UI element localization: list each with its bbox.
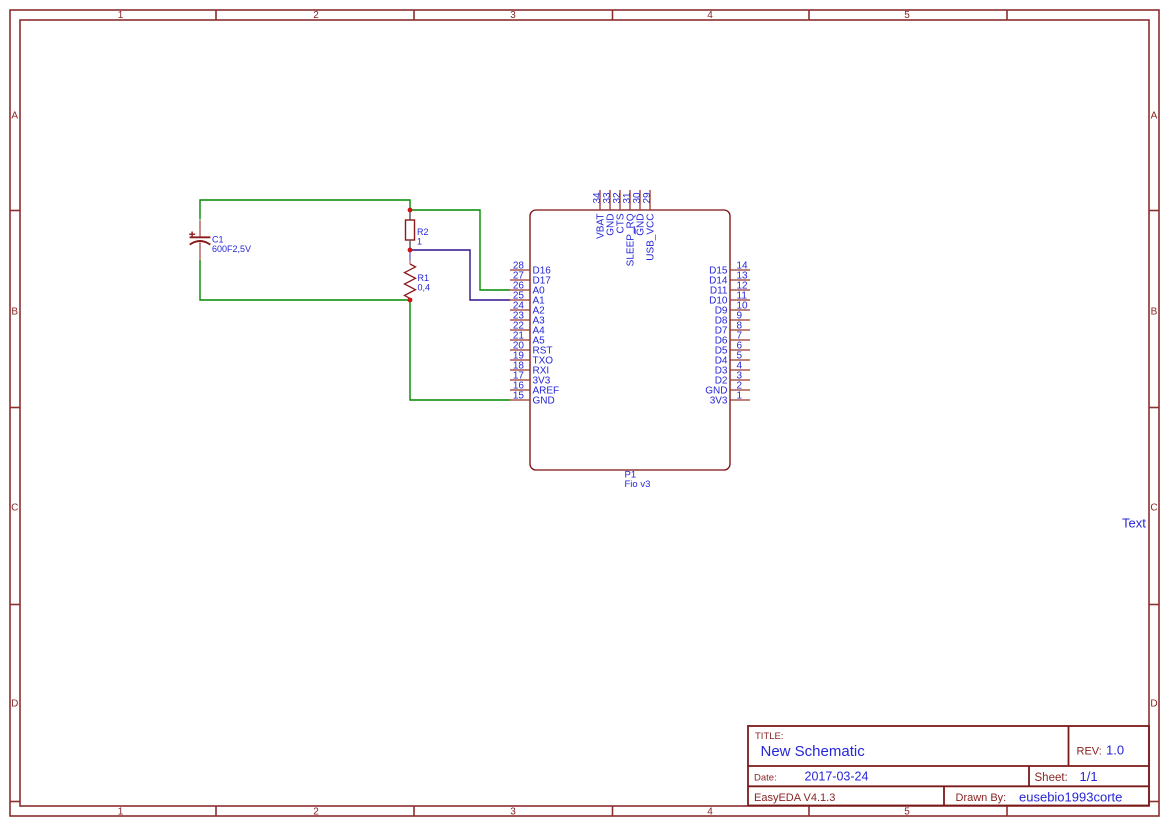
svg-text:New Schematic: New Schematic — [761, 743, 866, 760]
svg-text:D: D — [11, 699, 18, 710]
svg-text:eusebio1993corte: eusebio1993corte — [1019, 790, 1122, 805]
wire net GND: junction to pin GND 15 — [410, 300, 510, 400]
svg-text:4: 4 — [707, 807, 713, 818]
svg-text:B: B — [11, 307, 18, 318]
wire net VCC: C1 top to R2 top junction — [200, 200, 410, 220]
svg-text:TITLE:: TITLE: — [755, 731, 784, 742]
title block — [748, 726, 1149, 806]
pin 30 GND overline — [633, 226, 635, 233]
svg-text:D: D — [1150, 699, 1157, 710]
svg-text:15: 15 — [513, 391, 525, 402]
svg-text:5: 5 — [904, 807, 910, 818]
svg-text:1: 1 — [417, 236, 422, 246]
svg-text:1: 1 — [118, 807, 124, 818]
svg-text:3: 3 — [510, 807, 516, 818]
junction node at R1 bottom — [408, 298, 413, 303]
op-amp/IC P1 Fio v3 body — [530, 210, 730, 470]
resistor R1 — [405, 251, 416, 300]
svg-text:A: A — [1151, 111, 1158, 122]
wire net VCC: junction to pin A0 — [410, 210, 510, 290]
svg-text:Text: Text — [1122, 516, 1146, 531]
wire net mid: R2/R1 junction to pin A1 — [410, 250, 510, 300]
junction node at R2 top — [408, 208, 413, 213]
svg-text:Fio v3: Fio v3 — [625, 479, 651, 490]
svg-text:4: 4 — [707, 10, 713, 21]
svg-text:Drawn By:: Drawn By: — [956, 792, 1007, 804]
svg-text:0,4: 0,4 — [418, 282, 431, 292]
svg-text:Sheet:: Sheet: — [1035, 772, 1068, 784]
svg-text:USB_VCC: USB_VCC — [646, 214, 657, 261]
resistor R2 — [406, 211, 415, 249]
svg-text:1: 1 — [118, 10, 124, 21]
P1 pin leads — [510, 190, 750, 400]
svg-text:29: 29 — [642, 192, 653, 204]
svg-text:Date:: Date: — [754, 773, 777, 784]
svg-text:3V3: 3V3 — [710, 396, 728, 407]
svg-text:C: C — [11, 503, 18, 514]
svg-text:600F2,5V: 600F2,5V — [212, 244, 251, 254]
svg-text:A: A — [11, 111, 18, 122]
svg-text:2: 2 — [313, 807, 319, 818]
svg-text:5: 5 — [904, 10, 910, 21]
svg-text:3: 3 — [510, 10, 516, 21]
svg-text:1.0: 1.0 — [1106, 743, 1124, 758]
wire net GND: C1 bottom to R1 bottom junction — [200, 260, 410, 300]
svg-text:1: 1 — [737, 391, 743, 402]
svg-text:B: B — [1151, 307, 1158, 318]
svg-text:REV:: REV: — [1077, 746, 1102, 758]
P1 pin numbers and names — [513, 192, 748, 407]
svg-text:C: C — [1150, 503, 1157, 514]
svg-text:2017-03-24: 2017-03-24 — [805, 770, 869, 784]
svg-text:1/1: 1/1 — [1080, 769, 1098, 784]
svg-text:EasyEDA V4.1.3: EasyEDA V4.1.3 — [754, 792, 835, 804]
junction node between R2 and R1 — [408, 248, 413, 253]
svg-text:2: 2 — [313, 10, 319, 21]
svg-text:GND: GND — [533, 396, 555, 407]
capacitor C1 — [189, 220, 210, 259]
